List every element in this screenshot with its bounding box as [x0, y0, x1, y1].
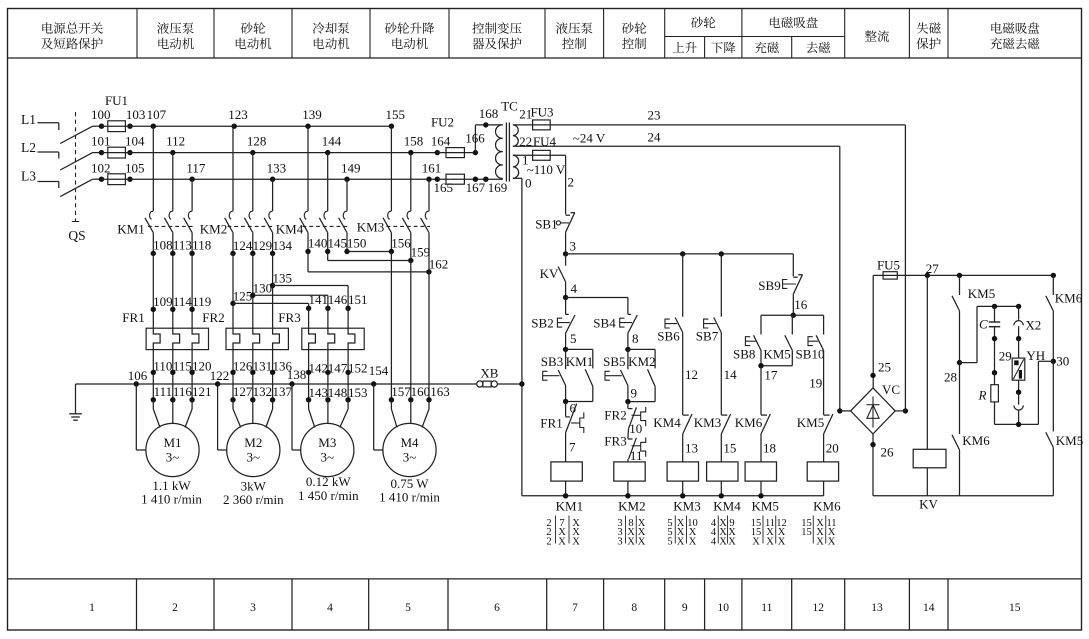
wire bus L1 100-155: [102, 125, 392, 127]
svg-text:10: 10: [629, 421, 642, 436]
svg-text:141: 141: [308, 292, 328, 307]
svg-text:FR2: FR2: [202, 310, 224, 325]
svg-text:150: 150: [347, 236, 367, 251]
svg-text:2: 2: [172, 602, 178, 614]
wire 24: [513, 145, 840, 147]
svg-text:1 450 r/min: 1 450 r/min: [298, 488, 359, 503]
thermal contact FR1: [565, 402, 567, 417]
header label col6 control transformer and protection: [472, 22, 484, 33]
header label col4 coolant pump motor: [313, 22, 325, 34]
chuck network bottom wire: [995, 423, 1039, 425]
header row separator: [8, 57, 1082, 59]
node 30: [1051, 359, 1056, 364]
svg-text:20: 20: [826, 440, 839, 455]
svg-text:119: 119: [192, 294, 211, 309]
svg-text:M4: M4: [400, 435, 419, 450]
discharge contact KM5 (lower right): [1052, 361, 1054, 431]
svg-text:105: 105: [125, 161, 145, 176]
header sub-divider chuck magnetize/demagnetize: [791, 37, 793, 59]
contactor KM1 linkage dashed: [148, 225, 194, 227]
connector XB: [477, 381, 483, 387]
svg-text:134: 134: [272, 238, 292, 253]
svg-text:155: 155: [385, 107, 405, 122]
svg-text:M2: M2: [244, 435, 262, 450]
header label col15 chuck charge discharge: [991, 22, 1002, 33]
footer column dividers: [136, 579, 138, 630]
svg-text:117: 117: [186, 161, 206, 176]
svg-text:125: 125: [233, 288, 253, 303]
svg-text:159: 159: [411, 245, 431, 260]
svg-text:KM5: KM5: [751, 498, 778, 513]
header label col2 hydraulic pump motor: [157, 22, 169, 34]
transformer TC primary winding: [496, 125, 503, 178]
svg-text:7: 7: [569, 440, 576, 455]
svg-text:C: C: [979, 317, 988, 332]
svg-text:1 410 r/min: 1 410 r/min: [141, 492, 202, 507]
svg-text:135: 135: [272, 271, 292, 286]
node 117: [189, 177, 194, 182]
svg-text:KM5: KM5: [1056, 433, 1083, 448]
svg-text:110: 110: [153, 358, 172, 373]
svg-text:4: 4: [711, 537, 717, 548]
node 6: [563, 399, 568, 404]
svg-text:KM2: KM2: [200, 222, 227, 237]
node 154: [371, 381, 376, 386]
resistor R: [991, 385, 999, 402]
svg-text:102: 102: [91, 161, 111, 176]
svg-text:2: 2: [546, 537, 551, 548]
svg-text:5: 5: [667, 537, 672, 548]
fuse FU3: [513, 124, 906, 126]
svg-text:152: 152: [348, 360, 368, 375]
svg-text:23: 23: [648, 108, 661, 123]
connector X2 lower: [1018, 380, 1020, 392]
nodes 142 147 152 and 143 148 153: [308, 350, 310, 400]
svg-text:10: 10: [718, 602, 730, 614]
svg-text:L3: L3: [21, 169, 36, 184]
svg-text:26: 26: [881, 445, 895, 460]
svg-text:M1: M1: [163, 435, 181, 450]
svg-text:156: 156: [391, 236, 411, 251]
svg-text:7: 7: [572, 602, 578, 614]
svg-text:15: 15: [801, 527, 812, 538]
wire 166 riser to 168: [474, 125, 476, 153]
contactor KM2 main contacts: [232, 126, 234, 211]
node 161: [426, 177, 431, 182]
svg-text:147: 147: [328, 360, 348, 375]
svg-text:121: 121: [192, 384, 212, 399]
switch QS blade L1: [60, 126, 92, 143]
node 123: [232, 124, 237, 129]
svg-text:SB6: SB6: [657, 328, 680, 343]
svg-text:131: 131: [253, 358, 273, 373]
svg-text:4: 4: [327, 602, 333, 614]
node 4 bus: [563, 295, 568, 300]
svg-text:SB10: SB10: [796, 346, 825, 361]
svg-text:0: 0: [525, 176, 532, 191]
node 133: [270, 177, 275, 182]
node 149: [344, 177, 349, 182]
jog button SB3: [565, 349, 567, 369]
svg-text:140: 140: [308, 236, 328, 251]
node 144: [325, 150, 330, 155]
svg-text:29: 29: [999, 348, 1012, 363]
node 155: [389, 124, 394, 129]
svg-text:KM2: KM2: [628, 354, 655, 369]
svg-text:153: 153: [348, 385, 368, 400]
svg-text:106: 106: [128, 368, 148, 383]
node 135 jumper to FR3: [270, 283, 275, 288]
nodes 141 146 151 FR3 inputs: [306, 306, 311, 311]
self-hold contact KM5: [791, 315, 793, 334]
svg-text:KM3: KM3: [694, 415, 721, 430]
header label col3 grinding wheel motor: [241, 22, 253, 34]
svg-text:130: 130: [253, 280, 273, 295]
svg-text:11: 11: [761, 602, 772, 614]
svg-text:16: 16: [794, 297, 808, 312]
stop button SB1: [566, 214, 570, 216]
chuck contact KM6 (upper right): [1051, 273, 1056, 278]
node 107: [151, 124, 156, 129]
switch QS blade L2: [60, 153, 92, 170]
wire bus L3 102-165: [102, 178, 438, 180]
DC negative rail: [873, 495, 1053, 497]
node 9: [625, 399, 630, 404]
node 130 jumper to FR3: [250, 293, 255, 298]
thermal contact FR2: [627, 402, 629, 409]
wire 23 drop to rectifier: [904, 125, 906, 411]
svg-text:14: 14: [724, 367, 738, 382]
svg-text:108: 108: [153, 237, 173, 252]
switch QS blade L3: [60, 179, 92, 196]
ground symbol: [75, 384, 77, 414]
svg-text:L2: L2: [21, 140, 36, 155]
svg-text:5: 5: [405, 602, 411, 614]
svg-text:128: 128: [247, 134, 267, 149]
footer row separator: [8, 578, 1082, 580]
transformer TC secondary 24V winding: [513, 125, 518, 146]
interlock contact KM5: [824, 414, 830, 416]
svg-text:123: 123: [228, 107, 248, 122]
crossover wire 140-162: [307, 252, 309, 272]
svg-text:132: 132: [253, 384, 273, 399]
svg-text:KM1: KM1: [566, 354, 593, 369]
chuck contact KM5 (charge): [957, 273, 962, 278]
interlock contact KM6: [760, 366, 762, 415]
wire 2 drop to SB1: [565, 155, 567, 214]
svg-text:158: 158: [404, 134, 424, 149]
svg-text:X: X: [828, 537, 836, 548]
wires KM2 to FR2 with nodes 125 130 135 taps: [232, 253, 234, 328]
crossover wire 145-159: [327, 252, 329, 261]
svg-text:2: 2: [568, 174, 575, 189]
svg-text:X: X: [766, 537, 774, 548]
svg-text:139: 139: [302, 107, 322, 122]
svg-text:161: 161: [422, 161, 442, 176]
svg-text:KM6: KM6: [813, 498, 841, 513]
svg-text:137: 137: [272, 384, 292, 399]
node 3 bus: [563, 251, 568, 256]
motor M1: [146, 423, 199, 476]
fuse FU5 line: [873, 274, 1053, 276]
header label col1 power switch and short-circuit protection: [42, 22, 53, 33]
svg-text:169: 169: [488, 180, 508, 195]
svg-text:113: 113: [173, 237, 192, 252]
node 164: [435, 150, 440, 155]
button SB8: [760, 315, 762, 334]
svg-text:149: 149: [341, 161, 361, 176]
chuck network top wire: [960, 362, 978, 364]
header label col8 grinding wheel control: [622, 22, 634, 34]
svg-text:8: 8: [632, 331, 639, 346]
interlock contact KM3: [721, 414, 727, 416]
svg-text:11: 11: [630, 448, 643, 463]
node 112: [170, 150, 175, 155]
nodes 126 131 136 and 127 132 137: [232, 350, 234, 400]
svg-text:9: 9: [631, 386, 638, 401]
svg-text:X: X: [638, 537, 646, 548]
svg-text:162: 162: [429, 256, 449, 271]
svg-text:25: 25: [878, 359, 891, 374]
svg-text:151: 151: [348, 292, 368, 307]
svg-text:17: 17: [764, 367, 778, 382]
svg-text:L1: L1: [21, 112, 36, 127]
svg-text:KM4: KM4: [276, 222, 304, 237]
svg-text:FU1: FU1: [105, 93, 128, 108]
header label col5 wheel raise/lower motor: [385, 22, 397, 34]
contactor KM2 linkage dashed: [228, 225, 274, 227]
svg-text:VC: VC: [882, 382, 900, 397]
svg-text:SB1: SB1: [535, 217, 557, 232]
svg-text:SB8: SB8: [733, 346, 755, 361]
svg-text:FR3: FR3: [604, 434, 626, 449]
svg-text:111: 111: [154, 384, 173, 399]
svg-text:SB3: SB3: [541, 354, 563, 369]
thermal relay FR3 heaters: [302, 328, 364, 349]
svg-text:SB4: SB4: [593, 316, 616, 331]
node row 140 145 150: [305, 249, 310, 254]
svg-text:KM1: KM1: [556, 498, 583, 513]
svg-text:160: 160: [411, 384, 431, 399]
svg-text:3~: 3~: [321, 450, 335, 465]
thermal relay FR1 heaters: [146, 328, 208, 349]
svg-text:FR2: FR2: [604, 408, 626, 423]
start button SB2: [565, 298, 567, 315]
svg-text:SB9: SB9: [758, 278, 780, 293]
node 5: [563, 347, 568, 352]
svg-text:109: 109: [153, 294, 173, 309]
fuse FU4: [513, 154, 566, 156]
contactor KM4 main contacts: [307, 126, 309, 211]
coil KM6: [807, 462, 838, 481]
svg-text:27: 27: [926, 261, 940, 276]
svg-text:~24 V: ~24 V: [573, 130, 606, 145]
crossover wire 150-156: [346, 251, 348, 253]
svg-text:1: 1: [89, 602, 95, 614]
header label col13 rectifier: [865, 30, 877, 41]
svg-text:100: 100: [91, 107, 111, 122]
svg-text:168: 168: [479, 106, 499, 121]
wires KM3 contacts to crossover nodes: [390, 252, 392, 254]
button SB7: [720, 254, 722, 317]
start button SB4: [627, 298, 629, 315]
svg-text:KM4: KM4: [653, 415, 681, 430]
relay coil KV: [926, 275, 928, 449]
header sub-divider grinding wheel up/down: [704, 37, 706, 59]
header label col14 loss-of-field protection: [917, 22, 929, 33]
node 128: [250, 150, 255, 155]
svg-text:4: 4: [571, 281, 578, 296]
svg-text:SB7: SB7: [696, 328, 719, 343]
node 165: [435, 177, 440, 182]
button SB10: [823, 315, 825, 334]
coil KM5: [745, 462, 776, 481]
node 106: [134, 381, 139, 386]
node VC left (from 24): [837, 408, 842, 413]
svg-text:124: 124: [233, 238, 253, 253]
svg-text:0.12 kW: 0.12 kW: [306, 474, 352, 489]
coil KM3: [667, 462, 698, 481]
motor M4: [383, 423, 436, 476]
node 125 jumper to FR3: [230, 301, 235, 306]
switch QS linkage dashed: [75, 112, 77, 222]
svg-text:FU3: FU3: [530, 104, 553, 119]
svg-text:3: 3: [617, 537, 622, 548]
svg-text:24: 24: [648, 129, 662, 144]
svg-text:3: 3: [570, 239, 577, 254]
contactor KM4 linkage dashed: [303, 225, 349, 227]
wire 0 drop: [513, 177, 522, 179]
svg-text:KM6: KM6: [735, 415, 763, 430]
svg-text:6: 6: [494, 602, 500, 614]
svg-text:103: 103: [126, 107, 146, 122]
svg-text:KM2: KM2: [618, 498, 645, 513]
node 122: [215, 381, 220, 386]
svg-text:107: 107: [147, 107, 167, 122]
coil KM1: [551, 462, 582, 481]
svg-text:101: 101: [91, 134, 111, 149]
svg-text:118: 118: [192, 237, 211, 252]
svg-text:138: 138: [287, 367, 307, 382]
fuse FU1 L1: [99, 124, 104, 129]
svg-text:120: 120: [192, 358, 212, 373]
chuck coil YH: [1018, 339, 1020, 359]
node 28: [957, 360, 962, 365]
header label col11-12 electromagnetic chuck charge/discharge: [770, 17, 781, 28]
svg-text:163: 163: [430, 384, 450, 399]
node 25: [870, 373, 875, 378]
svg-text:114: 114: [173, 294, 193, 309]
svg-text:104: 104: [125, 134, 145, 149]
svg-text:133: 133: [267, 161, 287, 176]
self-hold contact KM1: [566, 348, 593, 350]
svg-text:115: 115: [173, 358, 192, 373]
svg-text:3~: 3~: [247, 450, 261, 465]
motor M3: [301, 423, 354, 476]
node 139: [305, 124, 310, 129]
coil KM2: [614, 462, 645, 481]
svg-text:13: 13: [871, 602, 883, 614]
node row 108 113 118: [151, 251, 156, 256]
svg-text:X: X: [627, 537, 635, 548]
svg-text:15: 15: [723, 440, 736, 455]
svg-text:X: X: [572, 537, 580, 548]
fuse FU1 L2: [99, 150, 104, 155]
svg-text:5: 5: [570, 331, 577, 346]
svg-text:15: 15: [1009, 602, 1021, 614]
svg-text:14: 14: [923, 602, 935, 614]
svg-text:142: 142: [308, 360, 328, 375]
header column dividers: [136, 9, 138, 59]
fuse FU2 lower: [437, 178, 503, 180]
svg-text:146: 146: [328, 292, 348, 307]
svg-text:FR1: FR1: [122, 310, 144, 325]
svg-text:28: 28: [944, 369, 957, 384]
svg-text:X: X: [558, 537, 566, 548]
svg-text:12: 12: [685, 367, 698, 382]
svg-text:KM5: KM5: [968, 286, 995, 301]
coil KM4: [707, 462, 738, 481]
svg-text:129: 129: [253, 238, 273, 253]
svg-text:122: 122: [210, 368, 230, 383]
fuse FU2 upper: [437, 152, 475, 154]
contactor KM3 main contacts: [390, 126, 392, 211]
capacitor C: [994, 306, 996, 321]
svg-text:9: 9: [682, 602, 688, 614]
transformer TC secondary 110V winding: [513, 155, 519, 178]
svg-text:157: 157: [391, 384, 411, 399]
svg-text:X: X: [719, 537, 727, 548]
svg-text:18: 18: [763, 440, 776, 455]
svg-text:166: 166: [465, 130, 485, 145]
svg-text:KM1: KM1: [117, 222, 144, 237]
svg-text:FU2: FU2: [431, 115, 454, 130]
wires KM3 to motor M4 nodes 157 160 163: [390, 252, 392, 400]
svg-text:3~: 3~: [166, 450, 180, 465]
svg-text:YH: YH: [1026, 348, 1045, 363]
svg-text:164: 164: [431, 134, 451, 149]
self-hold contact KM2: [628, 348, 655, 350]
svg-text:144: 144: [322, 134, 342, 149]
node 8: [625, 347, 630, 352]
svg-text:165: 165: [434, 180, 454, 195]
relay contact KV: [565, 254, 567, 266]
wire bus L2 101-164: [102, 152, 438, 154]
svg-text:KM5: KM5: [797, 415, 824, 430]
svg-text:X: X: [816, 537, 824, 548]
svg-text:FR3: FR3: [278, 310, 300, 325]
svg-text:R: R: [978, 388, 987, 403]
svg-text:KV: KV: [540, 266, 559, 281]
svg-text:2 360 r/min: 2 360 r/min: [223, 492, 284, 507]
svg-text:TC: TC: [501, 99, 518, 114]
svg-text:3: 3: [250, 602, 256, 614]
svg-text:SB5: SB5: [603, 354, 625, 369]
svg-text:M3: M3: [318, 435, 336, 450]
svg-text:1 410 r/min: 1 410 r/min: [379, 490, 440, 505]
svg-text:KM3: KM3: [357, 220, 384, 235]
svg-text:KM6: KM6: [962, 433, 990, 448]
svg-text:KM6: KM6: [1055, 291, 1083, 306]
svg-text:127: 127: [233, 384, 253, 399]
node 26: [872, 434, 874, 496]
header label col7 hydraulic pump control: [556, 22, 568, 34]
node 16 bus: [791, 313, 796, 318]
ground protective earth bus: [76, 383, 522, 385]
motor M2: [227, 423, 280, 476]
svg-text:12: 12: [812, 602, 824, 614]
svg-text:KV: KV: [919, 497, 938, 512]
